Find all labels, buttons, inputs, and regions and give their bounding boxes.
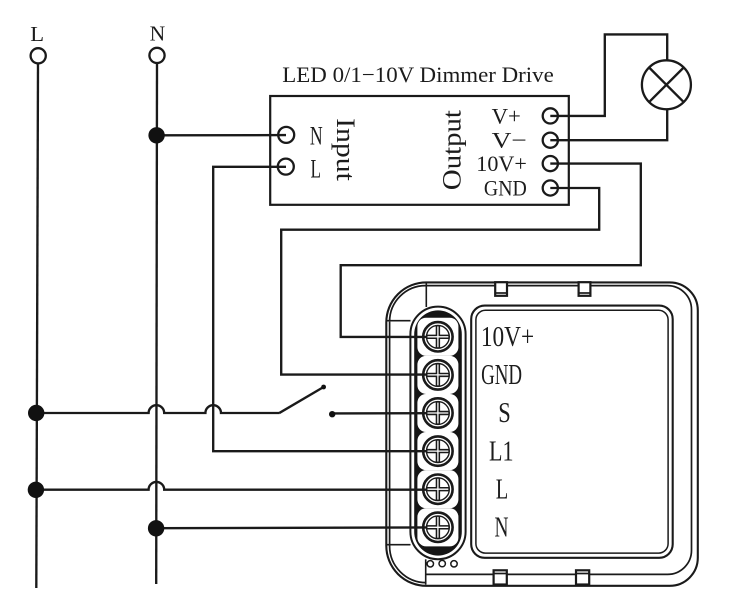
screw phillips crosses xyxy=(427,326,449,539)
wire switch contact to S terminal xyxy=(332,412,438,415)
svg-text:10V+: 10V+ xyxy=(476,151,527,176)
switch fixed contact dot xyxy=(329,411,335,417)
module inner wall left and corner arc xyxy=(390,322,427,583)
output terminal GND circle xyxy=(543,180,558,195)
svg-text:S: S xyxy=(498,398,511,429)
wire 10V+ to module xyxy=(341,164,641,337)
svg-text:L: L xyxy=(311,154,322,184)
input terminal L circle xyxy=(278,159,294,175)
svg-text:N: N xyxy=(150,22,166,46)
junction dot N bottom xyxy=(148,520,164,536)
module corner seam vertical xyxy=(425,283,427,308)
wire L to module L terminal with hop xyxy=(36,482,438,490)
wire L input to L1 terminal xyxy=(213,167,438,451)
svg-text:L: L xyxy=(496,474,509,505)
wire V- to lamp bottom xyxy=(550,108,667,140)
module outer shell xyxy=(386,282,698,585)
module bottom clip 2 xyxy=(576,570,589,584)
svg-text:GND: GND xyxy=(481,360,522,391)
junction dot L upper xyxy=(28,405,44,421)
output terminal 10V+ circle xyxy=(543,156,558,171)
module panel outer xyxy=(471,306,673,558)
svg-text:N: N xyxy=(310,120,323,150)
supply N vertical wire xyxy=(155,63,158,584)
terminal cell cutouts xyxy=(417,318,458,547)
svg-text:Output: Output xyxy=(436,109,466,190)
terminal strip interstitial fill xyxy=(414,310,462,555)
switch arm xyxy=(279,387,324,413)
dimmer drive box xyxy=(270,96,569,205)
supply N terminal circle xyxy=(149,48,164,63)
wire N feed to dimmer input xyxy=(157,134,286,137)
wire V+ to lamp top xyxy=(550,34,667,116)
module bottom clip 1 xyxy=(494,570,507,584)
terminal strip outer xyxy=(410,307,465,560)
output terminal V- circle xyxy=(543,133,558,148)
module top clip 2 xyxy=(579,282,591,296)
wire GND to module xyxy=(281,188,599,375)
svg-text:Input: Input xyxy=(331,118,361,182)
output terminal V+ circle xyxy=(543,108,558,123)
lamp xyxy=(642,60,691,109)
module bottom-left seam vertical xyxy=(425,559,427,584)
module panel inner xyxy=(476,310,668,553)
svg-text:N: N xyxy=(495,513,509,544)
svg-text:V+: V+ xyxy=(492,103,521,128)
module inner shell wall xyxy=(390,286,692,575)
terminal screws xyxy=(423,322,452,542)
input terminal N circle xyxy=(278,127,294,143)
svg-text:L: L xyxy=(30,22,44,46)
svg-text:LED 0/1−10V Dimmer Drive: LED 0/1−10V Dimmer Drive xyxy=(282,62,554,87)
wire switch feed with hops xyxy=(36,405,279,413)
supply L terminal circle xyxy=(31,48,46,63)
svg-text:V−: V− xyxy=(492,128,527,153)
module bottom-left seam horizontal xyxy=(387,544,411,546)
junction dot L lower xyxy=(28,482,44,498)
module corner seam horizontal xyxy=(387,320,411,322)
supply L vertical wire xyxy=(36,64,38,589)
svg-text:L1: L1 xyxy=(489,436,514,467)
junction dot N top xyxy=(148,127,164,143)
svg-text:GND: GND xyxy=(484,175,527,200)
wire N to module N terminal xyxy=(156,526,438,529)
module top clip 1 xyxy=(495,282,507,296)
switch arm tip dot xyxy=(321,385,326,390)
indicator dots xyxy=(427,560,457,567)
svg-text:10V+: 10V+ xyxy=(481,322,534,353)
